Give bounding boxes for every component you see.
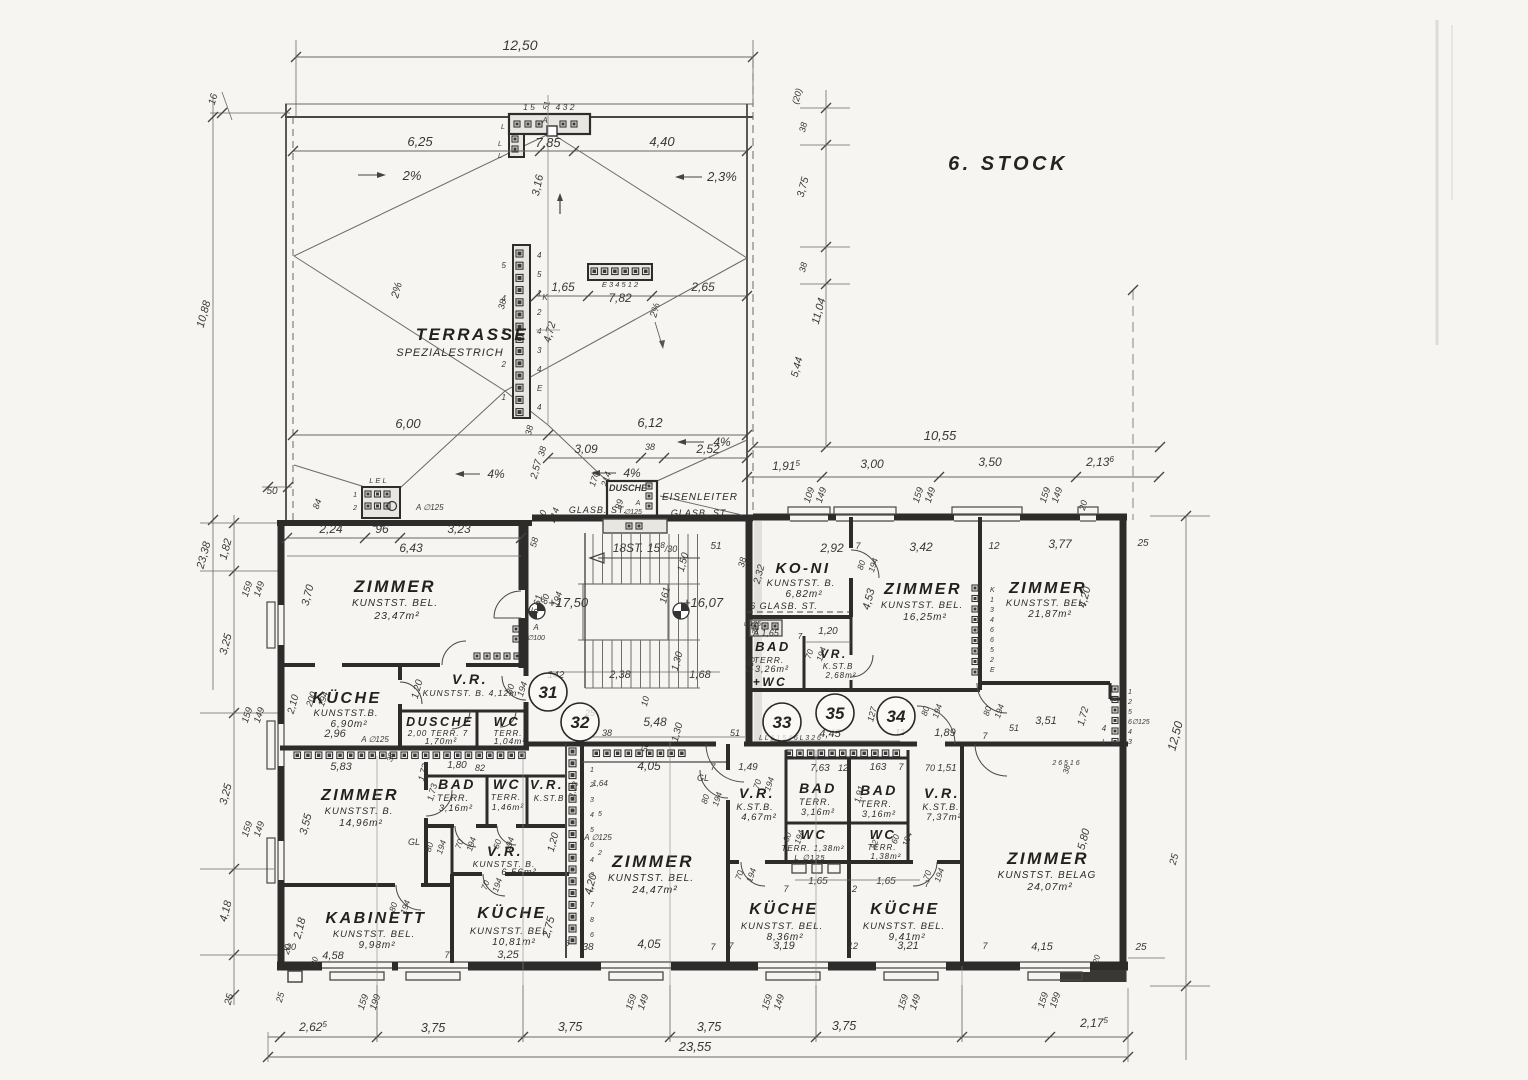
svg-text:KUNSTST. BEL.: KUNSTST. BEL.: [863, 921, 945, 932]
wall BADs top: [786, 757, 908, 760]
svg-text:GL: GL: [697, 773, 709, 783]
shaft strip walls: [565, 744, 567, 958]
stairwell mid landing: [578, 584, 668, 640]
svg-text:5: 5: [537, 270, 542, 279]
svg-text:K.ST.B.: K.ST.B.: [736, 802, 773, 812]
svg-text:BAD: BAD: [799, 780, 837, 796]
svg-text:7,63: 7,63: [810, 763, 830, 774]
svg-text:1: 1: [990, 597, 994, 604]
svg-text:V.R.: V.R.: [924, 785, 960, 801]
svg-text:70: 70: [925, 763, 935, 773]
level marker +17,50: [529, 603, 545, 619]
svg-text:KUNSTST. BELAG: KUNSTST. BELAG: [998, 870, 1097, 881]
svg-text:6,82m²: 6,82m²: [785, 589, 822, 600]
svg-text:ZIMMER: ZIMMER: [883, 581, 962, 598]
svg-text:4%: 4%: [487, 467, 505, 481]
door arc VR: [442, 641, 466, 665]
dim row 12,50: [296, 56, 753, 58]
svg-text:3: 3: [590, 797, 594, 804]
svg-text:2,24: 2,24: [318, 522, 343, 536]
svg-text:6: 6: [990, 637, 994, 644]
svg-text:3,16m²: 3,16m²: [862, 809, 896, 819]
wall KUECHE east: [398, 667, 402, 748]
svg-text:4%: 4%: [623, 466, 641, 480]
right chain 12,50: [1185, 516, 1187, 1060]
wall ZIMMER24,47 east: [726, 744, 730, 770]
wall BAD/WC bottom: [424, 824, 454, 828]
svg-text:BAD: BAD: [860, 782, 898, 798]
roof shower DUSCHE: [607, 481, 657, 518]
wall ZIMMER2407 west: [960, 744, 964, 963]
svg-text:1,38m²: 1,38m²: [871, 852, 902, 861]
svg-text:2,3%: 2,3%: [706, 169, 737, 184]
wall VR737 west: [907, 750, 910, 862]
wall WCs bottom / kueche top: [728, 860, 739, 864]
svg-text:6 GLASB. ST.: 6 GLASB. ST.: [750, 601, 818, 611]
svg-text:6: 6: [590, 842, 594, 849]
svg-text:4: 4: [1102, 724, 1107, 733]
svg-text:A: A: [541, 116, 547, 125]
svg-text:BAD: BAD: [755, 639, 791, 654]
svg-text:4: 4: [1128, 729, 1132, 736]
svg-text:23,47m²: 23,47m²: [373, 610, 420, 622]
svg-text:1,65: 1,65: [551, 280, 575, 294]
svg-text:96: 96: [375, 522, 389, 536]
svg-text:V.R.: V.R.: [530, 777, 564, 792]
bottom chain row 1: [268, 1036, 1128, 1038]
bottom-left step: [288, 971, 302, 982]
svg-text:32: 32: [571, 713, 590, 732]
stairwell eye: [583, 584, 668, 640]
windows bottom wall: [322, 959, 392, 972]
svg-text:K.ST.B: K.ST.B: [534, 794, 565, 803]
stair/right wing wall: [746, 517, 753, 744]
outer wall bottom: [277, 962, 1128, 971]
apartment circle 31: [529, 673, 567, 711]
dim 10,55: [753, 446, 1160, 448]
svg-text:DUSCHE: DUSCHE: [406, 715, 474, 729]
svg-text:20: 20: [285, 942, 296, 952]
svg-text:5,48: 5,48: [643, 715, 667, 729]
up arrow: [559, 196, 561, 214]
wall VR/KUECHE divider: [452, 872, 482, 876]
svg-text:4,40: 4,40: [649, 134, 675, 149]
door arc zimmer 24,07 entry: [961, 743, 963, 745]
wall VR268 east: [850, 617, 853, 655]
svg-text:4: 4: [537, 327, 542, 336]
terrace parapet top edge: [285, 103, 753, 105]
svg-text:A: A: [635, 500, 641, 507]
svg-text:KUNSTST. BEL.: KUNSTST. BEL.: [352, 598, 438, 609]
door arc dusche: [452, 711, 470, 729]
door arc kueche 8,36: [741, 862, 765, 886]
svg-text:3,00: 3,00: [860, 457, 884, 471]
outer wall left: [278, 520, 285, 966]
svg-text:3,25: 3,25: [497, 949, 519, 961]
door arc KO-NI: [851, 550, 879, 578]
vent stack: [513, 245, 530, 418]
heater row zimmer 24,47: [593, 750, 600, 757]
left chain 1,82/3,25/3,25/4,18: [233, 515, 235, 1005]
svg-text:1,20: 1,20: [818, 626, 838, 637]
svg-text:4: 4: [590, 857, 594, 864]
door arc kueche 6,90: [400, 682, 422, 704]
svg-text:WC: WC: [493, 776, 521, 792]
EISENLEITER ladder: [660, 496, 742, 515]
svg-text:38: 38: [645, 442, 655, 452]
shaft squares column: [569, 748, 576, 755]
svg-text:10,55: 10,55: [924, 428, 957, 443]
door arc zimmer 14,96: [426, 790, 452, 816]
svg-text:5: 5: [1128, 709, 1132, 716]
dim row 6,25 / 7,85 / 4,40: [293, 150, 747, 152]
svg-text:KUNSTST. BEL.: KUNSTST. BEL.: [608, 873, 694, 884]
svg-text:5: 5: [990, 647, 994, 654]
wall KABINETT top: [280, 883, 395, 887]
wall BAD/VR bottom: [747, 688, 851, 692]
svg-text:KUNSTST. BEL.: KUNSTST. BEL.: [1006, 598, 1088, 609]
svg-text:1,64: 1,64: [592, 779, 608, 788]
svg-text:51: 51: [541, 100, 551, 110]
wall KO-NI east: [849, 517, 853, 548]
svg-text:4: 4: [537, 251, 542, 260]
wall VR467 east: [785, 750, 788, 862]
wall ZIMMER east: [519, 523, 524, 668]
svg-text:1: 1: [1128, 689, 1132, 696]
svg-text:L ∅125: L ∅125: [794, 853, 825, 862]
heater row apts 33/34 top: [786, 750, 793, 757]
svg-text:4,67m²: 4,67m²: [741, 812, 777, 823]
svg-text:31: 31: [539, 683, 558, 702]
svg-text:3,75: 3,75: [832, 1019, 856, 1033]
svg-text:1,70m²: 1,70m²: [425, 736, 458, 746]
svg-text:KUNSTST. BEL.: KUNSTST. BEL.: [333, 929, 415, 940]
vent block horizontal: [588, 264, 652, 280]
svg-text:1,68: 1,68: [689, 669, 711, 681]
svg-text:4%: 4%: [713, 435, 731, 449]
dim row 1,65 / 7,82 / 2,65: [536, 295, 747, 297]
wall BAD/WC/VR top: [426, 775, 566, 778]
wall BAD/WC divider: [486, 776, 489, 826]
svg-text:3,75: 3,75: [558, 1020, 582, 1034]
svg-text:6,56m²: 6,56m²: [501, 867, 537, 878]
svg-text:∅100: ∅100: [527, 635, 545, 642]
wall DUSCHE/WC top: [400, 710, 526, 713]
shaft squares corridor: [513, 626, 519, 632]
svg-text:6. STOCK: 6. STOCK: [948, 153, 1068, 175]
dim row 3,09 / 38 / 2,52: [548, 457, 747, 459]
svg-text:6,12: 6,12: [637, 415, 663, 430]
plumbing fixtures between WCs: [792, 864, 806, 873]
svg-text:12: 12: [988, 541, 1000, 552]
terrace ridge diagonal left: [294, 133, 551, 256]
svg-text:1: 1: [590, 767, 594, 774]
koni vent block: [750, 620, 782, 636]
svg-text:10,81m²: 10,81m²: [492, 937, 536, 948]
svg-text:4,05: 4,05: [637, 759, 661, 773]
svg-text:51: 51: [730, 728, 740, 738]
svg-text:25: 25: [1134, 942, 1147, 953]
svg-text:A ∅125: A ∅125: [360, 735, 389, 744]
wall BAD326/VR divider: [803, 636, 806, 690]
svg-text:3,77: 3,77: [1048, 537, 1073, 551]
svg-text:3: 3: [537, 346, 542, 355]
svg-text:51: 51: [710, 541, 721, 552]
svg-text:4: 4: [537, 403, 542, 412]
svg-text:6: 6: [990, 627, 994, 634]
svg-text:ZIMMER: ZIMMER: [611, 852, 694, 871]
svg-text:3,51: 3,51: [1035, 715, 1056, 727]
terrace right edge wall: [746, 104, 748, 517]
svg-text:1,51: 1,51: [937, 763, 956, 774]
svg-text:3,50: 3,50: [978, 455, 1002, 469]
terrace valley diagonals: [294, 256, 505, 391]
wall KUECHE west: [450, 874, 454, 963]
svg-text:2: 2: [1127, 699, 1132, 706]
svg-text:1,80: 1,80: [447, 760, 467, 771]
svg-text:5: 5: [598, 811, 602, 818]
svg-text:TERR.: TERR.: [799, 797, 831, 807]
wall WC/VR divider: [526, 776, 529, 826]
svg-text:GL: GL: [408, 837, 420, 847]
wall BAD/WC divider row: [786, 822, 908, 825]
door arc VR 2,68: [851, 655, 873, 677]
svg-text:23,55: 23,55: [678, 1039, 712, 1054]
scan fold artifact: [1436, 20, 1439, 345]
door arc zimmer 24,47: [700, 770, 728, 798]
svg-text:2: 2: [597, 850, 602, 857]
svg-text:V.R.: V.R.: [452, 671, 488, 687]
door arc wc 1,46: [497, 826, 516, 845]
wall zimmer 16,25 bottom: [851, 688, 980, 692]
svg-text:24,47m²: 24,47m²: [631, 884, 678, 896]
landing hatch strip: [603, 519, 667, 533]
svg-text:4,58: 4,58: [322, 950, 344, 962]
bottom-right parapet: [1060, 970, 1126, 982]
party wall apt31/32: [280, 746, 529, 751]
svg-text:6,00: 6,00: [395, 416, 421, 431]
wall BAD divider center: [847, 758, 851, 958]
svg-text:7,85: 7,85: [535, 135, 561, 150]
svg-text:51: 51: [1009, 723, 1019, 733]
svg-text:6∅125: 6∅125: [1128, 719, 1150, 726]
shaft strip right of stairs: [754, 521, 762, 744]
door arc kueche 10,81: [483, 874, 505, 896]
svg-text:TERR.: TERR.: [437, 793, 469, 803]
svg-text:33: 33: [773, 713, 792, 732]
svg-text:1,65: 1,65: [876, 876, 896, 887]
svg-text:6,43: 6,43: [399, 541, 423, 555]
svg-text:L: L: [498, 141, 502, 148]
svg-text:KABINETT: KABINETT: [326, 910, 427, 927]
slope 2,3% arrow: [678, 176, 702, 178]
wall DUSCHE/WC divider: [476, 711, 479, 748]
svg-text:KÜCHE: KÜCHE: [477, 903, 546, 922]
slope 2% arrow: [358, 174, 383, 176]
outer wall top stair section: [532, 515, 753, 522]
level marker +16,07: [673, 603, 689, 619]
svg-text:3,75: 3,75: [697, 1020, 721, 1034]
svg-text:GLASB. ST.: GLASB. ST.: [569, 505, 627, 515]
svg-text:7,37m²: 7,37m²: [926, 812, 962, 823]
svg-text:2,68m²: 2,68m²: [825, 671, 857, 680]
outer wall top left wing: [277, 520, 532, 526]
svg-text:E 3 4 5 1 2: E 3 4 5 1 2: [602, 280, 639, 289]
svg-text:3,42: 3,42: [909, 540, 933, 554]
svg-text:KUNSTST. B.: KUNSTST. B.: [325, 806, 394, 817]
svg-text:4: 4: [590, 812, 594, 819]
svg-text:8: 8: [590, 917, 594, 924]
stair direction arrow: [598, 557, 700, 559]
svg-text:2,65: 2,65: [690, 280, 715, 294]
apartment circle 34: [877, 697, 915, 735]
svg-text:L: L: [1102, 739, 1106, 746]
svg-text:EISENLEITER: EISENLEITER: [662, 492, 738, 503]
svg-text:82: 82: [475, 763, 485, 773]
svg-text:1 5: 1 5: [523, 102, 535, 112]
svg-text:BAD: BAD: [438, 776, 476, 792]
svg-text:5: 5: [502, 261, 507, 270]
svg-text:K.ST.B.: K.ST.B.: [922, 802, 959, 812]
svg-text:KUNSTST. B. 4,12m: KUNSTST. B. 4,12m: [423, 688, 518, 698]
terrace ridge diagonal right: [551, 133, 747, 258]
svg-text:2: 2: [536, 308, 542, 317]
svg-text:KO-NI: KO-NI: [776, 560, 831, 577]
door arc kueche 9,41: [913, 862, 937, 886]
svg-text:KUNSTST.B.: KUNSTST.B.: [313, 708, 378, 719]
svg-text:1: 1: [502, 393, 506, 402]
svg-text:4: 4: [537, 365, 542, 374]
svg-text:3,19: 3,19: [773, 940, 794, 952]
svg-text:12,50: 12,50: [502, 37, 537, 53]
svg-text:38: 38: [582, 942, 594, 953]
heater column zimmer 16,25: [972, 585, 978, 591]
svg-text:4: 4: [990, 617, 994, 624]
svg-text:1,46m²: 1,46m²: [492, 802, 525, 812]
svg-text:2,38: 2,38: [608, 669, 631, 681]
svg-text:TERR. 1,38m²: TERR. 1,38m²: [781, 844, 844, 853]
svg-text:16,25m²: 16,25m²: [903, 612, 947, 623]
svg-text:6,25: 6,25: [407, 134, 433, 149]
svg-text:KÜCHE: KÜCHE: [870, 899, 939, 918]
svg-text:3,26m²: 3,26m²: [755, 664, 789, 674]
svg-text:12: 12: [848, 941, 858, 951]
svg-text:KUNSTST. BEL.: KUNSTST. BEL.: [881, 600, 963, 611]
wall ZIMMER14,96 east: [424, 762, 428, 790]
svg-text:3,09: 3,09: [574, 442, 598, 456]
svg-text:L: L: [498, 153, 502, 160]
svg-text:3,16m²: 3,16m²: [801, 807, 835, 817]
windows left wall: [274, 605, 287, 645]
wall VR 6,56 west: [451, 826, 454, 874]
svg-text:1,89: 1,89: [934, 727, 955, 739]
right chain 3,75 / 11,04 / 5,44: [825, 90, 827, 447]
svg-text:K: K: [542, 293, 548, 302]
svg-text:ZIMMER: ZIMMER: [1008, 580, 1087, 597]
dims apt31: [287, 537, 521, 539]
svg-text:2,92: 2,92: [819, 541, 844, 555]
svg-text:1,65: 1,65: [808, 876, 828, 887]
svg-text:5,83: 5,83: [330, 761, 352, 773]
left outer chain 10,88 / 23,38: [212, 95, 214, 690]
svg-text:24,07m²: 24,07m²: [1026, 881, 1073, 893]
apartment circle 32: [561, 703, 599, 741]
svg-text:ZIMMER: ZIMMER: [1006, 849, 1089, 868]
svg-text:A ∅125: A ∅125: [415, 503, 444, 512]
svg-text:35: 35: [826, 704, 845, 723]
svg-text:14,96m²: 14,96m²: [339, 818, 383, 829]
wall zimmer divider 16,25/21,87: [978, 517, 982, 690]
svg-text:ZIMMER: ZIMMER: [353, 577, 436, 596]
svg-text:L E L: L E L: [369, 476, 386, 485]
svg-text:KUNSTST. BEL.: KUNSTST. BEL.: [741, 921, 823, 932]
svg-text:12: 12: [847, 884, 857, 894]
door arc bad: [455, 826, 476, 847]
heater row party wall: [294, 752, 301, 759]
svg-text:3,23: 3,23: [447, 522, 471, 536]
terrace left edge wall: [285, 104, 287, 520]
slope 4% arrows: [680, 441, 704, 443]
svg-text:TERR.: TERR.: [491, 792, 522, 802]
svg-text:WC: WC: [494, 714, 521, 729]
svg-text:1,49: 1,49: [738, 762, 758, 773]
svg-text:4,15: 4,15: [1031, 941, 1053, 953]
outer wall right: [1120, 514, 1127, 982]
wall ZIMMER24,47 top party: [566, 742, 716, 747]
svg-text:163: 163: [870, 762, 887, 773]
svg-text:3,21: 3,21: [897, 940, 918, 952]
svg-text:7: 7: [798, 632, 803, 641]
svg-text:3,75: 3,75: [421, 1021, 445, 1035]
svg-text:2: 2: [352, 505, 357, 512]
svg-text:KÜCHE: KÜCHE: [749, 899, 818, 918]
squares col right wing: [1112, 686, 1118, 692]
wall zimmer 21,87 bottom: [980, 681, 1110, 685]
svg-text:+WC: +WC: [753, 675, 788, 689]
svg-text:4 3 2: 4 3 2: [556, 102, 575, 112]
stairwell treads: [592, 534, 594, 688]
svg-text:DUSCHE: DUSCHE: [609, 483, 648, 493]
svg-text:ZIMMER: ZIMMER: [320, 787, 399, 804]
svg-text:∅125: ∅125: [743, 621, 761, 628]
svg-text:3,16m²: 3,16m²: [439, 803, 473, 813]
svg-text:+16,07: +16,07: [683, 595, 724, 610]
svg-text:3: 3: [590, 872, 594, 879]
door arc apt33 entry: [706, 744, 744, 782]
dim row 1,91/3,00/3,50/2,13: [747, 476, 1160, 478]
svg-text:TERR.: TERR.: [860, 799, 892, 809]
apartment circle 33: [763, 703, 801, 741]
door arc wc: [500, 711, 516, 727]
outer wall top right wing: [753, 514, 1127, 521]
svg-text:2: 2: [501, 360, 507, 369]
apartment circle 35: [816, 694, 854, 732]
door arc apt34 entry: [917, 706, 955, 744]
svg-text:7,82: 7,82: [608, 291, 632, 305]
chimney block top: [509, 114, 590, 134]
svg-text:E: E: [990, 667, 995, 674]
svg-text:2,96: 2,96: [323, 728, 346, 740]
door arc kabinett: [396, 885, 421, 910]
corridor bottom wall: [526, 742, 585, 747]
svg-text:25: 25: [1136, 538, 1149, 549]
svg-text:L: L: [501, 124, 505, 131]
svg-text:38: 38: [602, 728, 612, 738]
svg-text:K.ST.B: K.ST.B: [823, 662, 854, 671]
axis line: [547, 95, 549, 425]
door arc zimmer 21,87: [977, 683, 1007, 713]
svg-text:A ∅125: A ∅125: [583, 833, 612, 842]
